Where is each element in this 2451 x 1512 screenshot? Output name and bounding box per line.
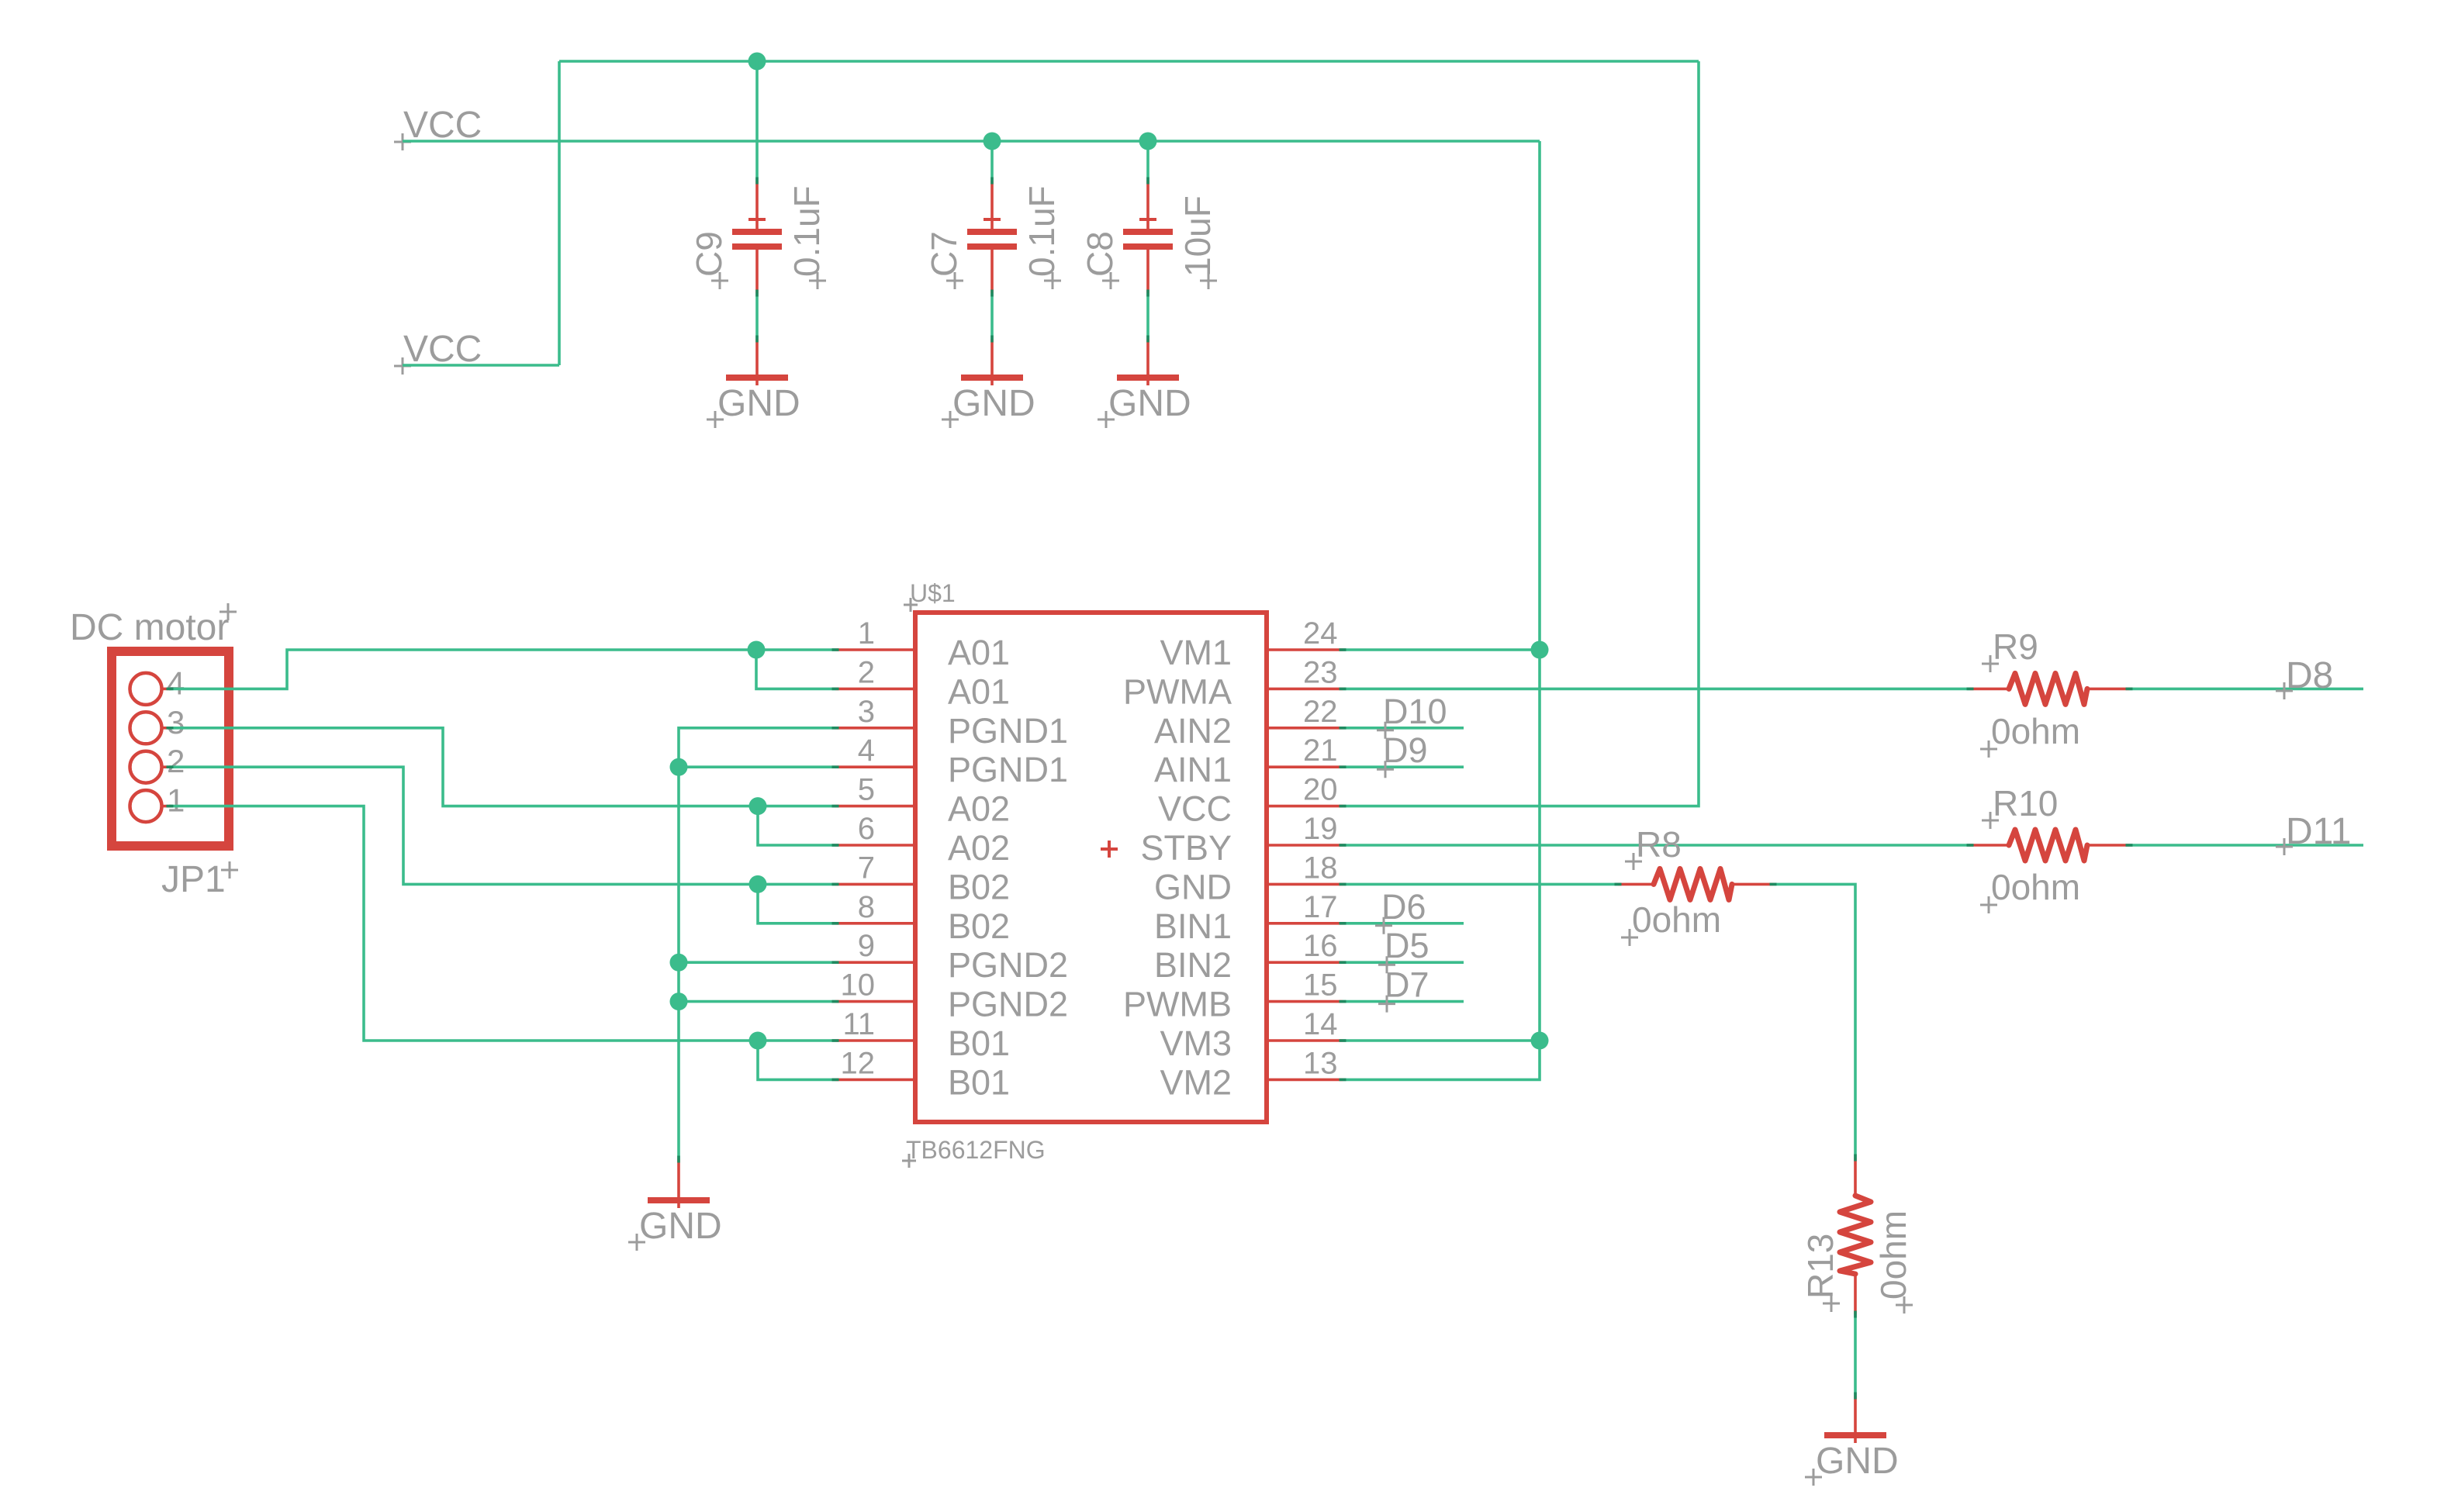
label C7 xyxy=(924,231,964,289)
wire branch to pin14 xyxy=(1343,1039,1540,1042)
svg-text:A01: A01 xyxy=(948,633,1010,672)
resistor R10 0ohm xyxy=(1970,830,2129,861)
label R9 xyxy=(1982,627,2038,672)
svg-text:VM3: VM3 xyxy=(1160,1024,1232,1063)
svg-text:R13: R13 xyxy=(1800,1234,1841,1299)
wire net D5 xyxy=(1343,961,1464,964)
pin 24 VM1 xyxy=(1160,616,1343,672)
net label D9 xyxy=(1377,730,1428,778)
svg-text:11: 11 xyxy=(842,1007,875,1041)
pin 9 PGND2 xyxy=(835,929,1068,985)
ground below PGND xyxy=(628,1159,722,1251)
wire net B02: JP1 pin2 to U1 pins 7,8 xyxy=(169,767,835,884)
label 0.1uF (C9) xyxy=(786,185,827,289)
svg-text:GND: GND xyxy=(1154,867,1232,906)
svg-text:C8: C8 xyxy=(1080,231,1120,277)
pin 14 VM3 xyxy=(1160,1007,1343,1063)
wire GND pin18 to R8 xyxy=(1343,883,1618,886)
label C8 xyxy=(1080,231,1120,289)
svg-text:10uF: 10uF xyxy=(1177,195,1218,277)
label 10uF (C8) xyxy=(1177,195,1218,289)
svg-text:D8: D8 xyxy=(2286,655,2333,696)
net label VCC (upper) xyxy=(394,105,482,150)
pin 7 B02 xyxy=(835,851,1010,906)
net label D7 xyxy=(1378,965,1429,1013)
svg-text:BIN2: BIN2 xyxy=(1154,945,1232,985)
wire net D10 xyxy=(1343,727,1464,730)
resistor R9 0ohm xyxy=(1970,673,2129,704)
svg-text:C7: C7 xyxy=(924,231,964,277)
wire PWMA pin23 to R9 xyxy=(1343,688,1970,691)
label JP1 xyxy=(161,859,238,900)
svg-text:13: 13 xyxy=(1303,1046,1338,1080)
pin 12 B01 xyxy=(835,1046,1010,1102)
pin number 4 (JP1) xyxy=(167,665,185,701)
svg-text:R10: R10 xyxy=(1993,783,2058,823)
ground below C8 xyxy=(1098,339,1191,428)
net label D8 xyxy=(2276,655,2333,699)
net label D10 xyxy=(1377,692,1447,739)
svg-text:0.1uF: 0.1uF xyxy=(1022,185,1062,277)
pin 23 PWMA xyxy=(1123,655,1343,711)
label C9 xyxy=(689,231,729,289)
svg-text:6: 6 xyxy=(858,812,875,846)
wire VCC lower to riser xyxy=(403,364,559,367)
svg-text:0ohm: 0ohm xyxy=(1632,899,1721,940)
svg-text:TB6612FNG: TB6612FNG xyxy=(906,1136,1046,1164)
svg-text:10: 10 xyxy=(841,968,876,1003)
wire A01 branch to pin2 xyxy=(756,650,835,689)
svg-text:20: 20 xyxy=(1303,773,1338,807)
svg-text:8: 8 xyxy=(858,890,875,924)
svg-text:23: 23 xyxy=(1303,655,1338,689)
pin 11 B01 xyxy=(835,1007,1010,1063)
svg-text:14: 14 xyxy=(1303,1007,1338,1041)
junction node A01 xyxy=(748,641,766,659)
pin number 2 (JP1) xyxy=(167,743,185,779)
ground below C9 xyxy=(707,339,800,428)
svg-text:18: 18 xyxy=(1303,851,1338,885)
label 0.1uF (C7) xyxy=(1022,185,1062,289)
wire B02 branch to pin8 xyxy=(758,884,835,923)
svg-text:B01: B01 xyxy=(948,1024,1010,1063)
svg-text:9: 9 xyxy=(858,929,875,963)
svg-text:22: 22 xyxy=(1303,695,1338,729)
svg-text:VCC: VCC xyxy=(1158,789,1232,829)
svg-text:A01: A01 xyxy=(948,671,1010,711)
pin 13 VM2 xyxy=(1160,1046,1343,1102)
svg-text:7: 7 xyxy=(858,851,875,885)
connector JP1 DC motor xyxy=(112,651,229,846)
label R8 xyxy=(1625,824,1682,870)
wire B01 branch to pin12 xyxy=(758,1041,835,1079)
svg-text:R9: R9 xyxy=(1993,627,2038,667)
wire net A02: JP1 pin3 to U1 pins 5,6 xyxy=(169,728,835,806)
junction node PGND2 pin9 xyxy=(670,954,688,972)
label 0ohm (R10) xyxy=(1980,867,2080,913)
svg-text:1: 1 xyxy=(858,616,875,651)
net label D5 xyxy=(1378,926,1429,973)
wire overlap marks xyxy=(167,178,2133,1400)
wire STBY pin19 to R10 xyxy=(1343,844,1970,847)
ground below C7 xyxy=(942,339,1035,428)
junction node C8 rail xyxy=(1139,133,1157,150)
label 0ohm (R13) xyxy=(1873,1210,1913,1314)
svg-text:12: 12 xyxy=(841,1046,876,1080)
wire branch to pin24 xyxy=(1343,648,1540,651)
capacitor C7 0.1uF xyxy=(967,141,1017,339)
svg-text:15: 15 xyxy=(1303,968,1338,1003)
resistor R13 0ohm xyxy=(1840,1158,1871,1314)
pin 5 A02 xyxy=(835,773,1010,829)
svg-text:VM2: VM2 xyxy=(1160,1062,1232,1102)
pin 3 PGND1 xyxy=(835,695,1068,751)
wire A02 branch to pin6 xyxy=(758,806,835,845)
wire net PGND: pin3 corner down to ground xyxy=(679,728,835,1159)
wire top rail y79 xyxy=(559,60,1699,63)
svg-text:GND: GND xyxy=(1108,383,1191,424)
pin number 3 (JP1) xyxy=(167,704,185,740)
wire top-right drop to VCC pin20 xyxy=(1343,61,1699,806)
pin 16 BIN2 xyxy=(1154,929,1343,985)
svg-text:GND: GND xyxy=(1816,1441,1899,1482)
pin number 1 (JP1) xyxy=(167,782,185,819)
svg-text:3: 3 xyxy=(167,704,185,740)
wire net D9 xyxy=(1343,765,1464,768)
svg-text:C9: C9 xyxy=(689,231,729,277)
wire rail right drop to VM pins xyxy=(1343,141,1540,1079)
junction node C7 rail xyxy=(984,133,1001,150)
junction node VM1 pin24 xyxy=(1531,641,1549,659)
svg-text:0ohm: 0ohm xyxy=(1991,711,2080,751)
svg-text:JP1: JP1 xyxy=(161,859,226,900)
pin 20 VCC xyxy=(1158,773,1343,829)
svg-text:PWMA: PWMA xyxy=(1123,671,1232,711)
pin 21 AIN1 xyxy=(1154,734,1343,789)
junction node B02 xyxy=(749,875,767,893)
capacitor C8 10uF xyxy=(1123,141,1173,339)
wire R13 to ground xyxy=(1854,1314,1857,1396)
svg-text:AIN1: AIN1 xyxy=(1154,750,1232,789)
op-amp U1 TB6612FNG body xyxy=(915,613,1267,1122)
wire VCC rail xyxy=(403,140,1540,143)
svg-text:U$1: U$1 xyxy=(910,579,956,607)
svg-text:PGND1: PGND1 xyxy=(948,711,1068,751)
svg-text:21: 21 xyxy=(1303,734,1338,768)
svg-text:A02: A02 xyxy=(948,828,1010,868)
svg-text:BIN1: BIN1 xyxy=(1154,906,1232,946)
svg-text:1: 1 xyxy=(167,782,185,819)
svg-text:2: 2 xyxy=(858,655,875,689)
svg-text:B02: B02 xyxy=(948,906,1010,946)
wire net A01: JP1 pin4 to U1 pins 1,2 xyxy=(169,650,835,689)
svg-text:PGND2: PGND2 xyxy=(948,985,1068,1024)
junction node C9 top xyxy=(748,53,766,71)
svg-text:VCC: VCC xyxy=(403,329,482,370)
label TB6612FNG xyxy=(902,1136,1046,1168)
svg-text:5: 5 xyxy=(858,773,875,807)
label DC motor xyxy=(70,603,237,648)
net label D6 xyxy=(1375,887,1426,934)
svg-text:PWMB: PWMB xyxy=(1123,985,1232,1024)
wire net D7 xyxy=(1343,1000,1464,1003)
pin 8 B02 xyxy=(835,890,1010,946)
wire PGND branch pin9 xyxy=(679,961,835,964)
svg-text:PGND2: PGND2 xyxy=(948,945,1068,985)
svg-text:VCC: VCC xyxy=(403,105,482,146)
svg-text:D7: D7 xyxy=(1385,965,1429,1005)
svg-text:4: 4 xyxy=(167,665,185,701)
wire R8 to R13 xyxy=(1773,884,1855,1158)
svg-text:B02: B02 xyxy=(948,867,1010,906)
net label VCC (lower) xyxy=(394,329,482,375)
net label D11 xyxy=(2276,811,2352,855)
pin 22 AIN2 xyxy=(1154,695,1343,751)
label R10 xyxy=(1982,783,2058,829)
wire R10 to D11 xyxy=(2129,844,2363,847)
svg-text:STBY: STBY xyxy=(1140,828,1232,868)
svg-text:A02: A02 xyxy=(948,789,1010,829)
wire riser x721 xyxy=(558,61,561,365)
svg-text:D6: D6 xyxy=(1381,887,1426,927)
svg-text:R8: R8 xyxy=(1636,824,1682,865)
pin 18 GND xyxy=(1154,851,1343,906)
label U$1 xyxy=(904,579,956,612)
svg-text:16: 16 xyxy=(1303,929,1338,963)
svg-text:AIN2: AIN2 xyxy=(1154,711,1232,751)
junction node B01 xyxy=(749,1032,767,1050)
svg-text:0ohm: 0ohm xyxy=(1873,1210,1913,1300)
svg-text:VM1: VM1 xyxy=(1160,633,1232,672)
svg-text:PGND1: PGND1 xyxy=(948,750,1068,789)
svg-text:0.1uF: 0.1uF xyxy=(786,185,827,277)
wire PGND branch pin4 xyxy=(679,765,835,768)
wire net D6 xyxy=(1343,922,1464,925)
svg-text:17: 17 xyxy=(1303,890,1338,924)
ground below R13 xyxy=(1805,1396,1899,1486)
junction node PGND1 pin4 xyxy=(670,758,688,776)
svg-text:GND: GND xyxy=(717,383,800,424)
svg-text:GND: GND xyxy=(639,1206,722,1247)
svg-text:0ohm: 0ohm xyxy=(1991,867,2080,907)
pin 6 A02 xyxy=(835,812,1010,868)
svg-text:B01: B01 xyxy=(948,1062,1010,1102)
pin 1 A01 xyxy=(835,616,1010,672)
label 0ohm (R9) xyxy=(1980,711,2080,758)
pin 10 PGND2 xyxy=(835,968,1068,1024)
svg-text:D10: D10 xyxy=(1383,692,1447,731)
svg-text:GND: GND xyxy=(952,383,1035,424)
svg-text:3: 3 xyxy=(858,695,875,729)
pin 2 A01 xyxy=(835,655,1010,711)
svg-text:4: 4 xyxy=(858,734,875,768)
label 0ohm (R8) xyxy=(1621,899,1721,946)
label R13 xyxy=(1800,1234,1841,1312)
svg-text:24: 24 xyxy=(1303,616,1338,651)
pin 19 STBY xyxy=(1140,812,1343,868)
svg-text:2: 2 xyxy=(167,743,185,779)
junction node VM3 pin14 xyxy=(1531,1032,1549,1050)
pin 15 PWMB xyxy=(1123,968,1343,1024)
symbol origin cross U1 xyxy=(1101,841,1118,858)
svg-text:D5: D5 xyxy=(1385,926,1429,965)
wire R9 to D8 xyxy=(2129,688,2363,691)
svg-text:19: 19 xyxy=(1303,812,1338,846)
pin 4 PGND1 xyxy=(835,734,1068,789)
svg-text:D11: D11 xyxy=(2286,811,2352,852)
capacitor C9 0.1uF xyxy=(732,61,782,339)
junction node PGND2 pin10 xyxy=(670,992,688,1010)
wire PGND branch pin10 xyxy=(679,1000,835,1003)
wire net B01: JP1 pin1 to U1 pins 11,12 xyxy=(169,806,835,1041)
resistor R8 0ohm xyxy=(1618,868,1773,899)
svg-text:D9: D9 xyxy=(1383,730,1428,770)
pin 17 BIN1 xyxy=(1154,890,1343,946)
junction node A02 xyxy=(749,797,767,815)
svg-text:DC motor: DC motor xyxy=(70,607,229,648)
